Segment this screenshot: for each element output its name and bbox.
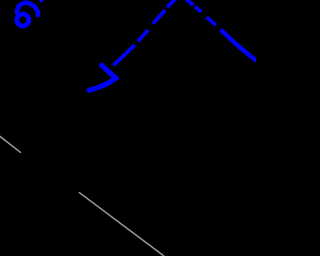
blue dot (40, 0, 44, 2)
gray dashed line lower segment (79, 192, 164, 256)
gray dashed line upper segment (0, 136, 21, 153)
right dashed line (186, 0, 256, 61)
node 6 label (17, 3, 38, 26)
left dashed line (114, 0, 176, 65)
chevron stroke (89, 65, 116, 90)
